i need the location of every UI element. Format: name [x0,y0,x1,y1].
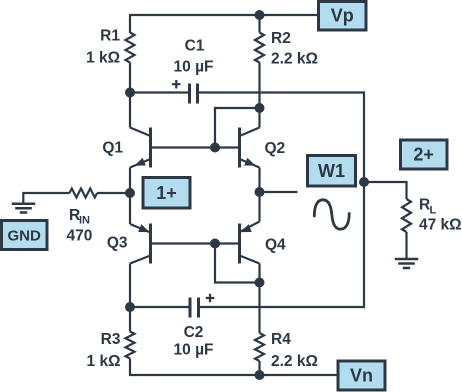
svg-text:R1: R1 [100,28,120,45]
svg-text:R2: R2 [271,30,291,47]
wire bottom rail Vn [130,359,338,376]
svg-text:GND: GND [8,228,42,245]
wire C1 right lead to output node [199,93,364,308]
junction top rail R2 [255,10,265,20]
svg-text:W1: W1 [318,161,345,181]
junction node R3 C2 Q3 collector [125,302,135,312]
svg-text:2+: 2+ [413,145,434,165]
svg-text:Vn: Vn [350,366,373,386]
svg-text:2.2 kΩ: 2.2 kΩ [271,353,318,370]
wire Q4 collector to node E [258,264,260,283]
transistor Q2 NPN diode-connected [240,128,286,168]
node label Vp [319,2,367,31]
junction Q2 Q4 emitters [255,187,265,197]
svg-text:Q2: Q2 [265,140,286,157]
wire Q1 Q2 bases [151,146,240,148]
resistor RL 47 kOhm [402,197,462,234]
junction node R1 C1 Q1 collector [125,88,135,98]
transistor Q4 PNP diode-connected [240,222,287,264]
svg-text:R3: R3 [101,331,121,348]
node label GND [2,221,48,250]
wire R2 to node B [258,63,260,128]
svg-text:10 µF: 10 µF [174,342,214,359]
wire Q1 emitter to node 1+ [129,168,131,194]
wire output node to RL [364,182,407,199]
svg-text:1+: 1+ [156,183,177,203]
node label 1+ [143,178,190,209]
wire Q3 Q4 bases [151,242,240,244]
wire node 1+ to Q3 emitter [129,193,131,224]
wire R3 top lead [129,307,131,332]
junction Q1 Q2 base node [210,143,220,153]
junction Q3 Q4 base node [210,239,220,249]
node label 2+ [401,140,448,169]
svg-text:Vp: Vp [331,6,354,26]
resistor RIN 470 [67,189,98,245]
wire GND to RIN [23,193,69,204]
svg-text:2.2 kΩ: 2.2 kΩ [271,51,318,68]
svg-text:L: L [430,205,437,217]
transistor Q3 PNP [107,224,151,264]
node label Vn [338,361,385,390]
wire R1 to node A [129,63,131,128]
svg-text:1 kΩ: 1 kΩ [86,50,120,67]
wire C2 left lead [130,306,189,308]
ground symbol left [12,204,35,213]
transistor Q1 NPN [102,128,150,168]
svg-text:470: 470 [67,228,93,245]
svg-text:47 kΩ: 47 kΩ [419,217,462,234]
wire Q2 emitter to node D [258,168,260,193]
wire node D to Q4 emitter [258,192,260,222]
svg-text:R4: R4 [271,331,291,348]
ground symbol right below RL [395,259,418,268]
wire Q3 collector to node C [129,264,131,308]
junction Q4 collector R4 [255,278,265,288]
sine wave source symbol [314,200,349,229]
svg-text:C1: C1 [185,38,205,55]
svg-text:C2: C2 [184,324,204,341]
capacitor C1 10 uF [172,38,213,104]
wire RL to ground [405,232,407,259]
wire R4 bottom lead [258,361,260,375]
resistor R2 2.2 kOhm [255,30,318,68]
wire top rail Vp [130,15,319,33]
junction output node W1 [359,177,369,187]
wire node D stub to W1 source [260,191,298,193]
node label W1 [308,156,356,187]
resistor R1 1 kOhm [86,28,134,67]
wire node E to R4 [258,283,260,334]
resistor R3 1 kOhm [87,331,135,370]
junction node 1+ input [125,188,135,198]
resistor R4 2.2 kOhm [255,331,318,370]
wire R2 top lead [258,15,260,33]
svg-text:Q1: Q1 [102,140,123,157]
wire C1 left lead [130,91,188,93]
svg-text:Q4: Q4 [265,237,286,254]
svg-text:1 kΩ: 1 kΩ [87,353,121,370]
wire base node to Q4 collector [215,244,260,283]
junction R2 Q2 collector [255,103,265,113]
wire base node to Q2 collector [215,108,260,148]
capacitor C2 10 uF [174,294,215,359]
svg-text:IN: IN [79,215,90,227]
wire RIN to node 1+ [97,192,130,194]
svg-text:Q3: Q3 [107,235,128,252]
junction R4 bottom rail [255,370,265,380]
svg-text:10 µF: 10 µF [174,59,214,76]
